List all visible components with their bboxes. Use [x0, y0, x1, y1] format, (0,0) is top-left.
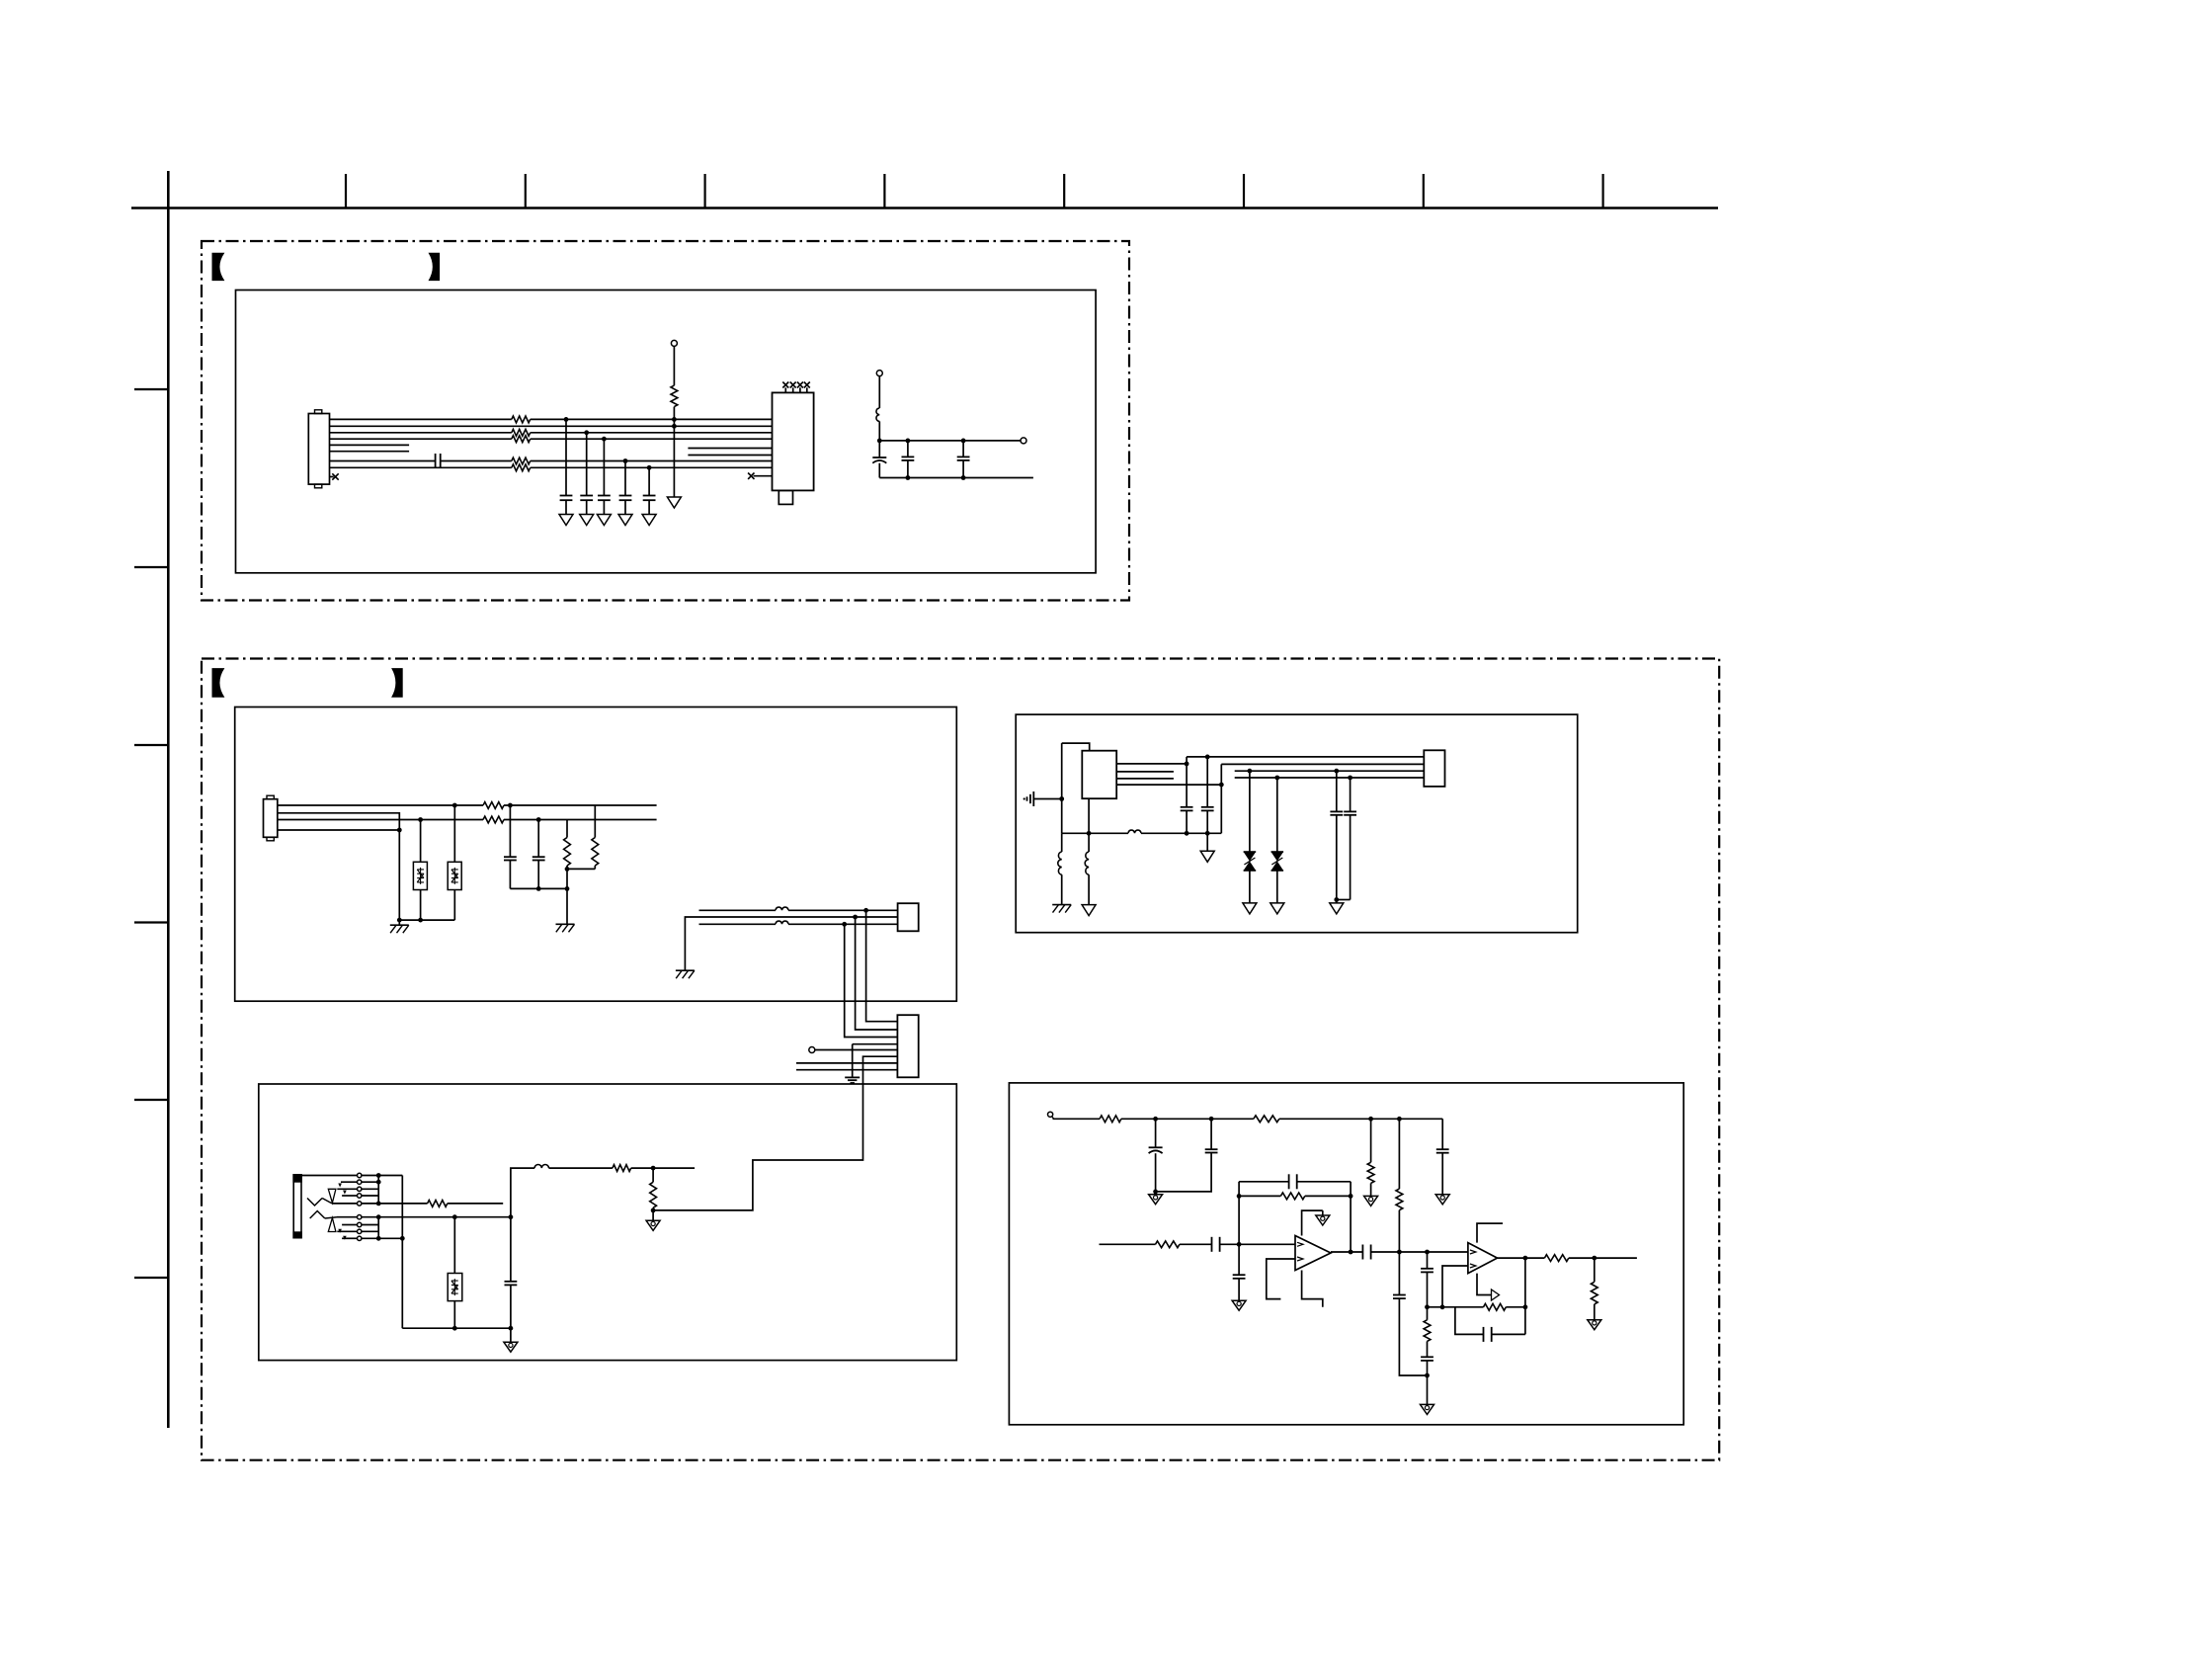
left grid tick 3: [134, 744, 168, 746]
left grid tick 6: [134, 1277, 168, 1279]
resistor R7: [483, 802, 504, 809]
top grid tick 4: [883, 174, 885, 208]
tuner board outline: [1016, 714, 1578, 933]
resistor R10: [594, 805, 596, 838]
wire up and right with inductor L7 and resistor R12: [511, 1168, 534, 1217]
wire U2 pin4: [1116, 784, 1221, 786]
ground GND16: [1232, 1300, 1246, 1310]
terminal T4 and wire to J4 pin5: [809, 1047, 815, 1053]
capacitor C2 shunt: [564, 417, 569, 422]
no-connect pin 2 of U1: [792, 387, 794, 392]
op-amp U4 minus wire: [1442, 1266, 1468, 1307]
op-amp U3 supply stub upper: [1302, 1210, 1323, 1235]
wire t3 with inductor L3: [699, 923, 777, 925]
resistor R22 output: [1544, 1255, 1568, 1262]
op-amp U3 minus stub: [1267, 1259, 1295, 1299]
upper circuit board outline: [236, 291, 1097, 573]
wire b1: [278, 804, 483, 806]
feedback resistor R21: [1484, 1303, 1507, 1310]
capacitor C11: [536, 817, 541, 822]
capacitor C5 shunt: [623, 458, 628, 463]
ground bus and chassis ground: [399, 919, 454, 921]
ground GND10: [1330, 903, 1344, 914]
ground GND9: [1270, 903, 1284, 914]
left grid tick 2: [134, 566, 168, 568]
wire net L3 to J5 pin3: [1235, 770, 1425, 772]
connector J1: [308, 414, 329, 485]
wire down to J4 pin3: [842, 922, 847, 927]
wire to terminal T3: [879, 440, 1021, 442]
wire t2: [685, 917, 897, 970]
connector J5: [1424, 750, 1444, 787]
no-connect pin 1 of U1: [784, 387, 786, 392]
jack contact wires lower group: [337, 1216, 358, 1218]
top grid tick 3: [703, 174, 705, 208]
headphone board outline: [259, 1084, 957, 1361]
top grid tick 5: [1063, 174, 1065, 208]
feedback capacitor C26 branch: [1455, 1307, 1484, 1335]
capacitor C12b: [1205, 755, 1210, 760]
wire down to J4 pin2: [853, 915, 858, 920]
capacitor C15: [510, 1217, 512, 1282]
resistor R19 on vertical net: [1398, 1119, 1400, 1189]
ground GND2: [580, 515, 594, 526]
jack contact wires upper group: [341, 1181, 358, 1183]
wire w3: [330, 432, 512, 434]
wire U4 output: [1498, 1257, 1545, 1259]
capacitor C19 series: [1211, 1237, 1213, 1252]
wire J4 pin8: [796, 1069, 897, 1071]
left grid tick 4: [134, 921, 168, 923]
capacitor C1 series: [435, 454, 437, 468]
capacitor C24: [1427, 1252, 1429, 1269]
ferrite bead FB1: [418, 817, 423, 822]
top grid tick 6: [1243, 174, 1245, 208]
wire U2 pin3 stub: [1116, 778, 1174, 780]
ground GND8: [1243, 903, 1257, 914]
resistor R23 to ground: [1594, 1258, 1596, 1282]
capacitor C13: [1334, 769, 1339, 774]
feedback capacitor C21: [1238, 1182, 1240, 1245]
inductor L1: [878, 376, 880, 408]
no-connect pin 3 of U1: [799, 387, 801, 392]
resistor R20: [1427, 1307, 1429, 1320]
chassis ground 4: [1052, 904, 1071, 906]
jack spring contact 2: [328, 1218, 336, 1232]
earth ground E2 rotated: [1032, 791, 1034, 806]
ground GND13: [1155, 1192, 1157, 1195]
terminal T1: [671, 340, 677, 346]
left grid tick 1: [134, 388, 168, 390]
capacitor C3 shunt: [584, 430, 589, 435]
sheet border vertical rule: [167, 171, 170, 1428]
resistor R9: [566, 820, 568, 838]
left grid tick 5: [134, 1099, 168, 1101]
ground GND6: [667, 497, 681, 508]
resistor R5: [512, 464, 531, 471]
chassis ground 3: [676, 969, 695, 971]
chassis ground 2: [556, 923, 575, 925]
resistor R2: [512, 429, 531, 436]
line amp board outline: [1009, 1083, 1683, 1425]
phone jack JK1 body: [293, 1175, 301, 1238]
interface board outline: [235, 707, 957, 1002]
no-connect stub at J1: [330, 476, 334, 478]
resistor R8: [483, 816, 504, 823]
upper section label left bracket: [212, 253, 225, 281]
capacitor C10: [508, 803, 513, 808]
capacitor C6 shunt: [647, 465, 652, 470]
capacitor C4 shunt: [602, 437, 607, 442]
terminal T2: [876, 371, 882, 376]
top grid tick 1: [345, 174, 347, 208]
jack switch arrows lower: [338, 1229, 342, 1233]
wire w8: [330, 466, 512, 468]
suppressor diode D1: [1248, 769, 1253, 774]
op-amp U4: [1468, 1243, 1498, 1274]
capacitor C12: [1186, 757, 1188, 807]
wire net L1 to J5 pin1: [1187, 756, 1424, 758]
capacitor C25: [1427, 1341, 1429, 1357]
upper section dash-dot boundary: [202, 241, 1129, 601]
wire w1: [330, 418, 512, 420]
wire w6 stub: [330, 451, 410, 453]
ground GND7: [1082, 905, 1096, 916]
ground bus wire: [879, 477, 1033, 479]
wire U2 pin1: [1116, 763, 1187, 765]
capacitor C17: [1210, 1119, 1212, 1149]
capacitor C22 series: [1361, 1245, 1363, 1260]
lower section dash-dot boundary: [202, 659, 1719, 1460]
terminal T3: [1021, 438, 1026, 444]
op-amp U3 supply stub lower: [1302, 1271, 1323, 1307]
wire b4: [278, 829, 400, 831]
jack sleeve wire to ground net: [378, 1237, 402, 1239]
wire w5b stub: [688, 448, 772, 450]
op-amp U3 input chain resistor R17: [1100, 1243, 1156, 1245]
resistor R3: [512, 436, 531, 443]
wire J4 pin4 to earth ground: [853, 1043, 898, 1045]
ferrite bead FB2: [452, 803, 457, 808]
node N1: [877, 439, 882, 444]
op-amp U4 supply stub: [1477, 1223, 1503, 1243]
ground GND18: [1421, 1404, 1434, 1414]
wire net L2 to J5 pin2: [1220, 764, 1222, 833]
capacitor C9: [961, 439, 966, 444]
suppressor diode D2: [1274, 776, 1279, 781]
inductor L5 to chassis ground: [1061, 833, 1063, 852]
wire U2 bottom pin: [1088, 798, 1090, 833]
resistor R15: [1254, 1116, 1279, 1123]
wire b2: [278, 813, 400, 920]
jack spring contact 1: [328, 1189, 336, 1203]
ground GND3: [597, 515, 611, 526]
jack switch lever 1: [307, 1199, 322, 1206]
resistor R1: [512, 416, 531, 423]
ground GND5: [642, 515, 656, 526]
jack switch arrows upper: [338, 1184, 342, 1188]
capacitor C23 on vertical net: [1398, 1252, 1400, 1295]
top grid tick 7: [1423, 174, 1425, 208]
ground GND4: [618, 515, 632, 526]
earth ground E1: [845, 1076, 860, 1078]
ground bus of U2 with inductor L4: [1062, 832, 1128, 834]
wire w7: [330, 460, 436, 462]
ground bus 2: [510, 887, 567, 889]
jack top contact wire: [301, 1175, 402, 1177]
connector J2: [264, 799, 278, 838]
signal wire with resistor R11: [378, 1203, 427, 1205]
no-connect stub at U1: [754, 475, 773, 477]
wire w2: [330, 425, 773, 427]
connector J3: [898, 903, 919, 931]
wire down to J4 pin1: [863, 908, 868, 913]
wire J4 pin7: [796, 1062, 897, 1064]
ground GND15: [1435, 1195, 1449, 1205]
no-connect pin 4 of U1: [806, 387, 808, 392]
top rail with resistor R14: [1052, 1117, 1053, 1119]
wire joining C13 C14: [1337, 899, 1351, 901]
feedback node wire: [1428, 1306, 1484, 1308]
feedback resistor R18: [1237, 1194, 1242, 1199]
resistor R4: [512, 458, 531, 464]
terminal T5: [1048, 1112, 1053, 1117]
wire w5 stub: [330, 444, 410, 446]
capacitor C20 to ground: [1238, 1244, 1240, 1275]
wire J4 pin6 down to headphone board: [653, 1056, 897, 1210]
wire joining R9 R10: [567, 868, 595, 870]
wire w4: [330, 438, 512, 440]
wire U3 output: [1331, 1251, 1362, 1253]
top grid tick 8: [1601, 174, 1603, 208]
IC U1: [773, 392, 814, 490]
jack contact circles: [358, 1173, 362, 1177]
sheet border horizontal rule: [131, 207, 1718, 209]
wire U2 top supply: [1062, 743, 1090, 751]
jack bus upper: [377, 1176, 379, 1204]
wire U2 pin2 stub: [1116, 771, 1174, 773]
ferrite bead FB3: [453, 1217, 455, 1274]
ground GND19: [1588, 1320, 1601, 1330]
ground GND11: [646, 1220, 660, 1230]
wire b3: [278, 819, 483, 821]
jack bus lower: [377, 1217, 379, 1239]
op-amp U3: [1295, 1236, 1331, 1271]
ground GND17: [1322, 1210, 1324, 1215]
ground GND1: [559, 515, 573, 526]
resistor R6 pull: [673, 346, 675, 385]
connector J4: [897, 1015, 918, 1077]
capacitor C14: [1348, 776, 1352, 781]
inductor L6 to ground: [1088, 833, 1090, 852]
resistor R16 to ground: [1370, 1119, 1372, 1162]
capacitor C7 electrolytic: [878, 441, 880, 458]
ground bus 3: [402, 1327, 511, 1329]
ground GND12: [504, 1342, 518, 1352]
lower section label right bracket: [391, 668, 403, 698]
wire t1 with inductor L2: [699, 909, 777, 911]
wire w6b stub: [688, 455, 772, 457]
capacitor C18 to ground: [1441, 1119, 1443, 1149]
ground GND14: [1364, 1196, 1378, 1206]
capacitor C16 electrolytic: [1155, 1119, 1157, 1147]
capacitor C8: [906, 439, 911, 444]
upper section label right bracket: [429, 253, 441, 281]
jack switch lever 2: [310, 1211, 325, 1219]
IC U2: [1082, 751, 1116, 799]
resistor R13: [650, 1182, 657, 1207]
wire net L4 to J5 pin4: [1235, 777, 1425, 779]
lower section label left bracket: [212, 668, 225, 698]
op-amp U4 bottom marker: [1477, 1274, 1491, 1295]
wire ring contact: [378, 1216, 454, 1218]
top grid tick 2: [525, 174, 527, 208]
ground GND7b: [1200, 851, 1214, 862]
